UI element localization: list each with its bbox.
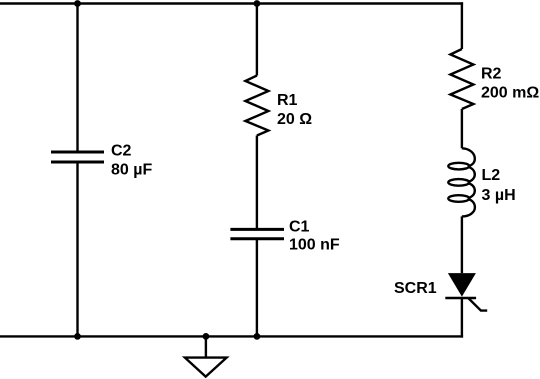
node junction dot top-left bbox=[74, 0, 81, 7]
node junction dot bottom-left bbox=[74, 333, 81, 340]
svg-text:C2: C2 bbox=[111, 143, 132, 160]
capacitor C2 bbox=[51, 152, 104, 162]
wire left branch upper segment bbox=[76, 4, 78, 153]
wire middle branch upper segment bbox=[256, 4, 258, 76]
node junction dot top-middle bbox=[254, 0, 261, 7]
svg-text:C1: C1 bbox=[289, 219, 310, 236]
svg-text:80 µF: 80 µF bbox=[111, 162, 152, 179]
node junction dot bottom-middle bbox=[254, 333, 261, 340]
node junction dot ground bbox=[203, 333, 210, 340]
svg-text:200 mΩ: 200 mΩ bbox=[481, 85, 539, 102]
wire between L2 and SCR1 bbox=[461, 216, 463, 273]
wire bottom rail bbox=[0, 335, 463, 337]
wire ground stub bbox=[205, 336, 207, 357]
wire top rail bbox=[0, 2, 463, 4]
capacitor C1 bbox=[230, 229, 284, 238]
svg-text:R1: R1 bbox=[277, 92, 298, 109]
svg-text:L2: L2 bbox=[482, 167, 501, 184]
svg-text:SCR1: SCR1 bbox=[394, 280, 437, 297]
thyristor SCR1 bbox=[445, 273, 487, 311]
svg-text:100 nF: 100 nF bbox=[289, 237, 340, 254]
svg-text:3 µH: 3 µH bbox=[482, 187, 516, 204]
wire between R2 and L2 bbox=[461, 109, 463, 148]
resistor R2 bbox=[450, 49, 473, 109]
resistor R1 bbox=[245, 76, 268, 136]
wire middle branch lower segment bbox=[256, 239, 258, 337]
wire right branch upper segment bbox=[461, 2, 463, 49]
inductor L2 bbox=[448, 148, 475, 216]
wire right branch lower segment bbox=[461, 298, 463, 338]
wire between R1 and C1 bbox=[256, 136, 258, 230]
wire left branch lower segment bbox=[76, 162, 78, 336]
ground bbox=[185, 358, 227, 377]
svg-text:R2: R2 bbox=[481, 66, 502, 83]
svg-text:20 Ω: 20 Ω bbox=[277, 111, 312, 128]
